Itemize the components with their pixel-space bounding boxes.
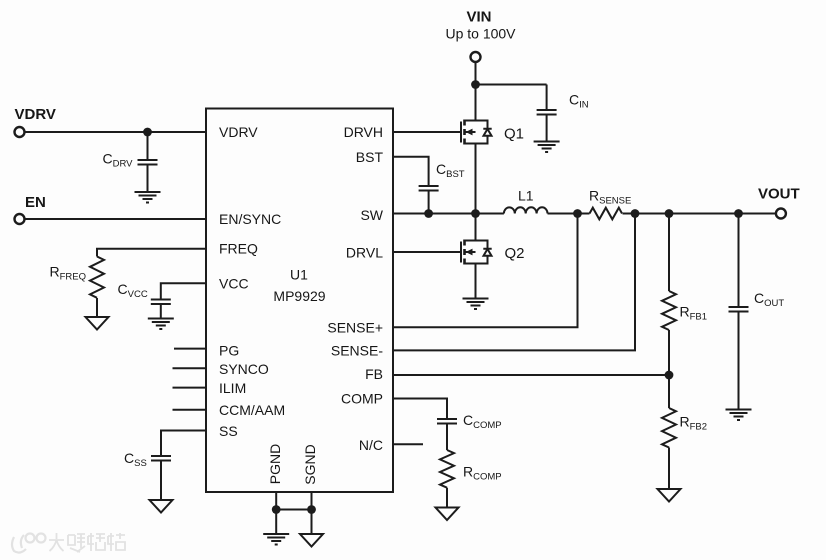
ground triangle CSS (150, 500, 173, 513)
svg-text:VDRV: VDRV (219, 124, 258, 140)
wire EN terminal to IC pin EN/SYNC (25, 218, 206, 220)
ground triangle SGND (300, 534, 323, 547)
component value labels with subscripts (50, 92, 785, 483)
wire CIN bottom (546, 115, 548, 142)
wire CVCC bottom (160, 304, 162, 319)
wire stub pin ILIM (173, 387, 207, 389)
resistor RSENSE (590, 208, 623, 220)
watermark text blocks (49, 533, 125, 552)
wire CSS to ground (160, 461, 162, 501)
wire VIN down (475, 62, 477, 84)
wire RFB2 to ground (668, 448, 670, 490)
op-amp U1 IC body MP9929 (206, 109, 393, 493)
svg-text:SYNCO: SYNCO (219, 361, 269, 377)
terminal VIN (471, 52, 481, 62)
capacitor CVCC (151, 299, 171, 301)
wire BST pin (393, 157, 429, 186)
node RSENSE/SENSE- (631, 209, 640, 218)
transistor Q1 (461, 120, 492, 145)
IC pin labels (219, 124, 534, 485)
wire RFB1 bottom (668, 330, 670, 375)
wire SW rail to Q2 drain (475, 214, 477, 241)
terminal VOUT (776, 209, 786, 219)
wire PGND pin down (275, 492, 277, 534)
wire DRVH pin to Q1 gate (393, 131, 461, 133)
node L1/RSENSE/SENSE+ (573, 209, 582, 218)
svg-text:FREQ: FREQ (219, 241, 258, 257)
svg-text:SW: SW (360, 207, 383, 223)
svg-text:U1: U1 (290, 267, 308, 283)
node SGND junction (307, 505, 316, 514)
svg-text:SENSE+: SENSE+ (327, 320, 383, 336)
wire Q2 source to ground (475, 264, 477, 299)
capacitor CSS (151, 455, 171, 457)
node VIN junction (471, 80, 480, 89)
ground earth CIN (534, 142, 560, 153)
wire VCC pin to CVCC (161, 283, 206, 299)
wire RCOMP to ground (446, 488, 448, 508)
wire FREQ pin to RFREQ (97, 249, 206, 257)
svg-text:FB: FB (365, 366, 383, 382)
node SW/CBST (424, 209, 433, 218)
wire SENSE- pin (393, 214, 635, 351)
wire SGND pin down (311, 492, 313, 534)
svg-text:EN: EN (25, 194, 46, 211)
svg-text:EN/SYNC: EN/SYNC (219, 211, 281, 227)
svg-text:Up to 100V: Up to 100V (445, 26, 516, 42)
wire SW rail (393, 213, 776, 215)
ground triangle RFB2 (658, 489, 681, 502)
svg-text:PGND: PGND (267, 444, 283, 484)
wire CDRV top (147, 132, 149, 160)
svg-text:BST: BST (356, 149, 384, 165)
wire VIN to Q1 drain (475, 85, 477, 121)
terminal VDRV (15, 127, 25, 137)
node SW/Q1-Q2 (471, 209, 480, 218)
capacitor CDRV (138, 159, 158, 161)
node VOUT/RFB1 (665, 209, 674, 218)
node VDRV/CDRV junction (143, 128, 152, 137)
capacitor COUT (729, 306, 749, 308)
svg-text:SENSE-: SENSE- (331, 343, 383, 359)
wire RFREQ to ground (96, 298, 98, 317)
svg-text:VCC: VCC (219, 276, 249, 292)
ground earth CVCC (148, 319, 174, 330)
inductor L1 (504, 207, 548, 213)
svg-text:ILIM: ILIM (219, 380, 246, 396)
resistor RFB2 (662, 408, 676, 448)
wire COUT top (738, 214, 740, 308)
wire CIN top (546, 85, 548, 111)
ground earth Q2 (463, 299, 489, 310)
svg-text:PG: PG (219, 343, 239, 359)
ground earth COUT (726, 410, 752, 421)
wire stub pin PG (174, 348, 206, 350)
node VOUT/COUT (734, 209, 743, 218)
ground triangle RCOMP (436, 508, 459, 521)
node FB (665, 371, 674, 380)
ground earth CDRV (135, 192, 161, 203)
watermark logo (12, 534, 46, 553)
transistor Q2 (461, 240, 492, 265)
wire COMP pin (393, 399, 447, 420)
wire CCOMP to RCOMP (446, 424, 448, 451)
wire SS pin to CSS (161, 431, 206, 457)
svg-text:CCM/AAM: CCM/AAM (219, 402, 285, 418)
svg-text:N/C: N/C (359, 437, 383, 453)
resistor RCOMP (440, 450, 454, 488)
svg-text:DRVH: DRVH (344, 124, 383, 140)
wire VDRV terminal to IC pin VDRV (25, 131, 206, 133)
svg-text:Q2: Q2 (505, 245, 525, 262)
wire CBST to SW rail (428, 191, 430, 214)
wire stub pin CCM/AAM (173, 409, 207, 411)
svg-text:SGND: SGND (302, 444, 318, 484)
wire Q1 source to SW rail (475, 144, 477, 214)
wire stub pin SYNCO (173, 367, 207, 369)
wire N/C stub (393, 443, 423, 445)
resistor RFREQ (90, 257, 104, 298)
wire DRVL pin to Q2 gate (393, 251, 461, 253)
svg-text:VIN: VIN (466, 9, 491, 26)
capacitor CCOMP (437, 418, 457, 420)
svg-text:VDRV: VDRV (15, 106, 56, 123)
capacitor CIN (537, 109, 557, 111)
wire PGND-SGND link (276, 509, 311, 511)
ground triangle RFREQ (86, 317, 109, 330)
resistor RFB1 (662, 291, 676, 330)
node PGND junction (272, 505, 281, 514)
wire VIN to CIN (476, 84, 547, 86)
wire RFB1 top (668, 214, 670, 292)
svg-text:DRVL: DRVL (346, 245, 383, 261)
svg-text:VOUT: VOUT (758, 186, 800, 203)
svg-text:COMP: COMP (341, 391, 383, 407)
wire COUT bottom (738, 312, 740, 410)
svg-text:Q1: Q1 (504, 126, 524, 143)
capacitor CBST (419, 185, 439, 187)
svg-text:L1: L1 (518, 188, 534, 204)
svg-text:SS: SS (219, 423, 238, 439)
wire FB pin (393, 374, 669, 376)
wire SENSE+ pin (393, 214, 578, 328)
wire CDRV bottom (147, 165, 149, 193)
svg-text:MP9929: MP9929 (273, 288, 325, 304)
wire RFB2 top (668, 375, 670, 408)
ground earth PGND (263, 534, 289, 545)
terminal EN (15, 214, 25, 224)
